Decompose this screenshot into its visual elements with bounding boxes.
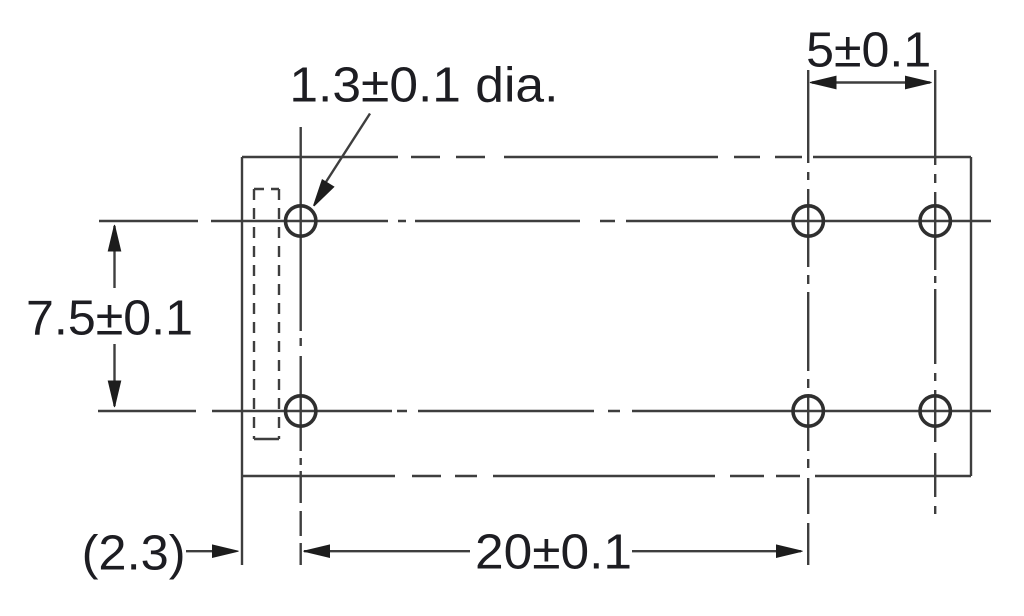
svg-text:7.5±0.1: 7.5±0.1 [26, 291, 193, 346]
svg-text:1.3±0.1 dia.: 1.3±0.1 dia. [289, 58, 558, 113]
left arrowhead of 5±0.1 [810, 76, 836, 88]
up arrowhead of 7.5±0.1 [108, 225, 120, 251]
hole bottom-middle-right [793, 396, 823, 426]
vertical center line through far-right hole column [934, 70, 936, 514]
inner dashed rectangle bottom edge [254, 438, 279, 440]
dimension line 5±0.1 [812, 81, 930, 83]
leader line of (2.3) [186, 550, 214, 552]
leader line from label to top-left hole [324, 114, 370, 186]
inner dashed rectangle right edge [278, 189, 280, 439]
dimension line 7.5±0.1 upper segment [113, 226, 115, 288]
inner dashed rectangle top edge [254, 188, 279, 190]
dimension line 7.5±0.1 lower segment [113, 344, 115, 406]
inner dashed rectangle left edge [253, 189, 255, 439]
dimension line 20±0.1 right segment [632, 550, 801, 552]
relay body outline bottom edge (dashed) [242, 475, 971, 477]
relay body outline right edge [970, 157, 972, 476]
leader arrowhead at hole [314, 180, 334, 206]
hole top-middle-right [793, 206, 823, 236]
relay body outline left edge with extension line down to (2.3) dimension [241, 157, 243, 565]
svg-text:20±0.1: 20±0.1 [475, 525, 632, 580]
svg-text:(2.3): (2.3) [82, 526, 186, 581]
down arrowhead of 7.5±0.1 [108, 381, 120, 407]
dimension line 20±0.1 left segment [304, 550, 470, 552]
svg-text:5±0.1: 5±0.1 [806, 23, 931, 78]
hole bottom-left [286, 396, 316, 426]
vertical center line through middle-right hole column [807, 70, 809, 565]
vertical center line through left hole column [300, 127, 302, 565]
right arrowhead of 5±0.1 [906, 76, 932, 88]
hole top-far-right [920, 206, 950, 236]
horizontal center line through lower hole row [98, 410, 991, 412]
right arrowhead of 20±0.1 [777, 545, 803, 557]
hole top-left 1.3 dia [286, 206, 316, 236]
hole bottom-far-right [920, 396, 950, 426]
left arrowhead of 20±0.1 [304, 545, 330, 557]
arrowhead of (2.3) pointing right [213, 545, 239, 557]
horizontal center line through upper hole row [99, 220, 991, 222]
relay body outline top edge (dashed) [242, 156, 971, 158]
